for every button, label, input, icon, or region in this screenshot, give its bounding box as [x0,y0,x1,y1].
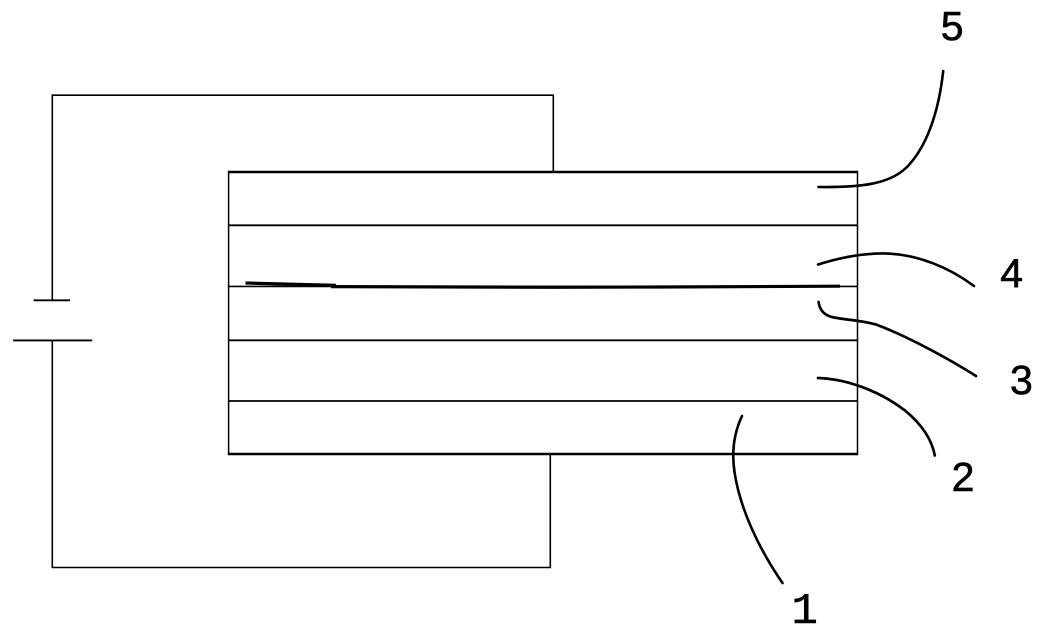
layer 3 thick film stroke left segment [246,283,337,285]
wire [52,95,553,300]
layer 3 thick film stroke right segment [331,286,840,287]
svg-text:1: 1 [791,587,817,635]
svg-text:2: 2 [952,454,975,500]
leader line 1 [733,416,782,583]
layer boundary line 3/2 [229,339,858,341]
leader line 3 [819,302,976,376]
leader line 4 [818,253,974,286]
layer stack box top edge [229,171,858,173]
svg-text:3: 3 [1010,357,1033,403]
battery B1 long plate [13,339,92,341]
leader line 2 [818,378,935,456]
leader line 5 [819,71,944,187]
layer stack box right edge [857,171,859,455]
svg-text:5: 5 [941,3,964,49]
layer boundary thin line 4/3 [229,285,858,287]
layer stack box left edge [228,171,230,455]
layer boundary line 2/1 [229,400,858,402]
battery B1 short plate [34,299,70,301]
wire [52,340,550,567]
layer stack box bottom edge [229,453,858,455]
layer boundary line 5/4 [229,224,858,226]
svg-text:4: 4 [1000,251,1023,297]
